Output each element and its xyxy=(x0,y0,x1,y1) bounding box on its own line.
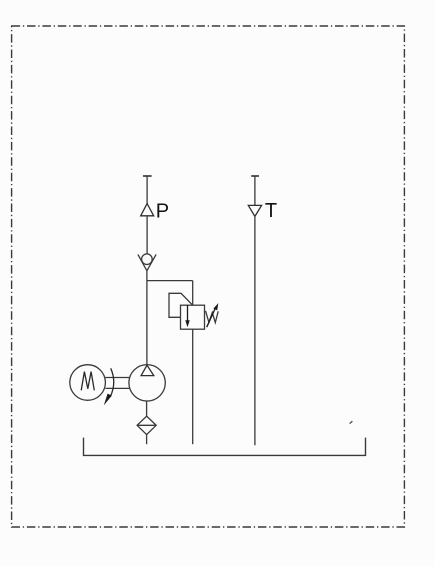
wire down to relief valve xyxy=(192,281,194,306)
relief valve flow arrow xyxy=(187,305,189,321)
wire filter to tank xyxy=(146,435,148,445)
relief valve RV1 pilot line xyxy=(169,293,193,317)
relief valve RV1 body xyxy=(181,305,205,329)
wire check valve to pump xyxy=(146,271,148,365)
port symbol T (triangle down) xyxy=(248,205,261,216)
rotation arrow xyxy=(110,368,113,396)
suction filter F1 xyxy=(137,416,156,434)
svg-text:T: T xyxy=(265,200,277,222)
svg-text:P: P xyxy=(156,201,169,223)
relief valve spring xyxy=(206,311,219,323)
electric motor M1 xyxy=(70,365,106,401)
pump outlet triangle xyxy=(141,365,154,375)
check valve CV (ball in seat) xyxy=(142,254,153,265)
filter element line xyxy=(137,424,156,426)
shaft coupling xyxy=(105,377,129,379)
wire T stub xyxy=(254,176,256,205)
node branch junction xyxy=(147,280,193,282)
wire P to check valve xyxy=(146,216,148,254)
wire relief valve drain to tank xyxy=(192,329,194,444)
wire T line to tank xyxy=(254,216,256,445)
port symbol P (triangle up) xyxy=(141,204,154,216)
wire P stub xyxy=(146,176,148,204)
check valve seat xyxy=(138,254,156,270)
tank / reservoir xyxy=(84,438,366,456)
port T top tick xyxy=(251,175,259,177)
motor letter M xyxy=(81,372,94,391)
relief valve adjustment arrow xyxy=(207,307,216,327)
port P top tick xyxy=(143,175,152,177)
stray mark xyxy=(350,421,353,423)
wire pump suction xyxy=(146,401,148,416)
pump P1 xyxy=(129,365,165,401)
